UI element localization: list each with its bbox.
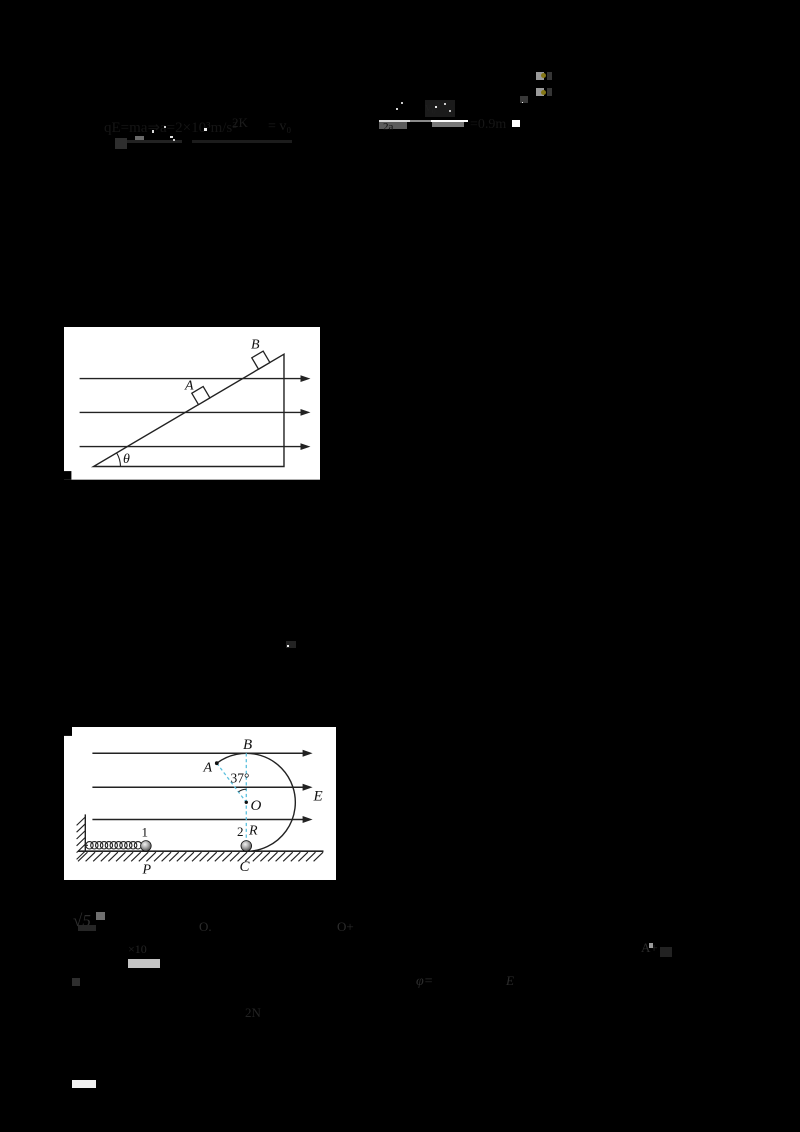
speck left2 (401, 102, 403, 104)
light dot in A plus (649, 943, 654, 948)
faint patch mid page (286, 641, 296, 648)
ball 2 (241, 841, 252, 852)
block B on incline (252, 351, 270, 369)
ground line (78, 850, 323, 852)
speck d (204, 128, 207, 131)
faint mark E2 (506, 974, 514, 987)
gray square in formula (135, 136, 145, 143)
faint mark O (199, 920, 212, 933)
gray square near squiggle (96, 912, 105, 921)
tiny dot cluster left (72, 978, 80, 986)
speck e (173, 139, 175, 141)
svg-text:A: A (184, 379, 194, 394)
faint mark bottom-left squiggle (73, 912, 91, 929)
page-notch top-left of panel 2 (64, 727, 72, 736)
svg-text:A: A (202, 761, 212, 776)
incline triangle (94, 354, 284, 466)
fraction bar (bright) (379, 120, 468, 122)
white square highlight (512, 120, 519, 127)
gray square above (520, 96, 528, 103)
svg-text:2: 2 (237, 824, 244, 839)
bright dot mid page (287, 645, 289, 647)
page-notch bottom-left of panel 1 (64, 471, 71, 480)
angle arc theta (117, 453, 121, 466)
numerator speck 2 (444, 103, 446, 105)
field line arrow 2 (diagram 1) (80, 409, 311, 416)
numerator speck 3 (449, 110, 451, 112)
icon row 2 dark square (547, 88, 553, 96)
speck left of numerator (396, 108, 398, 111)
faint formula mid cluster (232, 116, 248, 129)
speck a (152, 130, 155, 133)
light gray bar (128, 959, 160, 968)
spring (85, 842, 141, 849)
point A dot (215, 761, 219, 765)
denominator text (383, 122, 393, 133)
faint numerator block (425, 100, 455, 117)
circular track arc A->B->right->C (217, 753, 296, 851)
icon row 2 gray square (536, 88, 544, 96)
small 37deg angle arc at O (238, 789, 246, 792)
speck b (164, 126, 166, 128)
faint mark A plus (641, 941, 658, 954)
white bar bottom left (72, 1080, 96, 1089)
wall hatching (76, 817, 85, 859)
svg-text:P: P (141, 862, 151, 877)
numerator speck 1 (435, 106, 438, 109)
block A on incline (192, 387, 210, 405)
field line arrow 2 (diagram 2) (92, 784, 312, 791)
faint subscript row left (127, 140, 182, 143)
icon row 1 dark square (547, 72, 553, 80)
faint block right of A plus (660, 947, 672, 957)
faint formula mid cluster 2 (268, 120, 291, 134)
svg-text:1: 1 (141, 824, 148, 839)
icon row 1 gray square (536, 72, 544, 80)
faint under squiggle (78, 925, 96, 931)
icon row 2 olive dot (541, 90, 546, 95)
faint formula after fraction (470, 118, 506, 132)
dashed radius O-A (217, 763, 246, 802)
field line arrow 1 (diagram 1) (80, 375, 311, 382)
svg-text:θ: θ (123, 452, 130, 467)
denominator gray bar right (432, 122, 464, 127)
svg-text:O: O (250, 798, 261, 814)
dashed vertical B-O-C (245, 753, 247, 848)
faint formula left cluster (104, 121, 237, 136)
field line arrow 1 (diagram 2) (92, 750, 312, 757)
icon row 1 olive dot (541, 73, 546, 78)
svg-text:R: R (248, 823, 258, 838)
svg-text:E: E (312, 789, 322, 805)
diagram panel 2 background (64, 727, 336, 880)
physics diagram 2: spring, balls, circular track in horizontal field (64, 727, 336, 880)
faint mark 2N (245, 1006, 261, 1019)
diagram panel 1 background (64, 327, 320, 480)
svg-text:B: B (251, 338, 260, 353)
faint numerator (425, 100, 440, 113)
field line arrow 3 (diagram 2) (92, 816, 312, 823)
point O dot (244, 801, 247, 804)
denominator gray bar left (379, 122, 407, 129)
faint above gray bar (128, 943, 147, 955)
faint squiggle phi (416, 975, 433, 989)
ground hatching (78, 852, 323, 861)
svg-text:37°: 37° (230, 771, 249, 786)
speck c (170, 136, 173, 139)
faint gray block under formula (115, 138, 127, 149)
field line arrow 3 (diagram 1) (80, 443, 311, 450)
svg-text:B: B (243, 737, 252, 753)
white dot in gray square (522, 102, 524, 104)
svg-text:C: C (239, 859, 250, 875)
wall line (84, 814, 86, 851)
ball 1 (140, 841, 151, 852)
faint mark O+ (337, 920, 354, 933)
physics diagram 1: blocks on incline in horizontal field (64, 327, 320, 480)
faint subscript row right (192, 140, 292, 143)
